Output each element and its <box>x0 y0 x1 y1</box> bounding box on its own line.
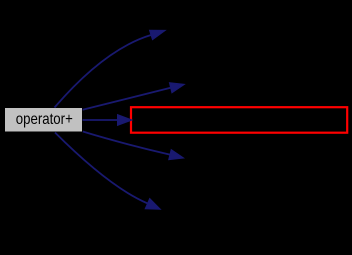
edge 4 (straight, lower) <box>83 132 184 160</box>
edge 5 (curved, to bottom node) <box>55 133 160 210</box>
svg-text:operator+: operator+ <box>16 111 73 128</box>
edge 1 (curved, to top node) <box>55 30 166 107</box>
node operator+ <box>5 108 82 132</box>
edge 3 (horizontal, to red node) <box>83 115 133 126</box>
edge 2 (straight, upper) <box>83 83 185 110</box>
node (red highlighted) <box>131 107 347 133</box>
